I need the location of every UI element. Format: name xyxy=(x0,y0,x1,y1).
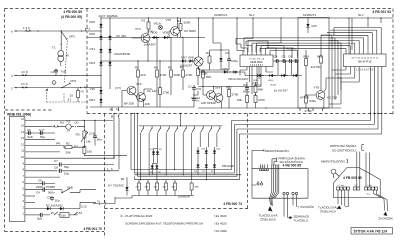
dashed divider mid horizontal xyxy=(87,113,393,115)
svg-text:N1: N1 xyxy=(67,120,71,124)
svg-text:500: 500 xyxy=(62,214,67,217)
box 500 xyxy=(60,212,69,217)
svg-text:560n: 560n xyxy=(48,191,55,195)
svg-text:2700: 2700 xyxy=(232,93,239,97)
zvoncek arrow xyxy=(383,212,387,217)
svg-text:MIKROTELEFÓN: MIKROTELEFÓN xyxy=(321,159,345,164)
stitok box xyxy=(351,228,393,235)
matrix bottom buses xyxy=(135,176,240,179)
diode VD13 xyxy=(281,74,287,77)
row wire 7 xyxy=(25,176,60,178)
svg-text:VD0: VD0 xyxy=(152,31,158,35)
svg-text:V30: V30 xyxy=(90,87,96,91)
matrix diodes group2 row2 xyxy=(196,163,199,169)
IC1 MHB 9600 xyxy=(240,55,273,67)
svg-text:100µ: 100µ xyxy=(231,59,238,63)
svg-text:ŠTÍTOK 4 FA 745 124: ŠTÍTOK 4 FA 745 124 xyxy=(354,228,388,233)
diode row wire xyxy=(245,75,302,77)
wire b line xyxy=(14,30,87,32)
svg-text:KC 508C: KC 508C xyxy=(184,29,197,33)
svg-text:ƒ ZVONČÍK: ƒ ZVONČÍK xyxy=(298,204,314,209)
row wire 15 xyxy=(25,126,52,128)
transistor VT6 xyxy=(207,91,216,100)
svg-text:C7: C7 xyxy=(54,159,58,163)
rail ticks at dashed xyxy=(300,108,323,111)
svg-text:10µ: 10µ xyxy=(55,199,60,203)
svg-text:VZ5: VZ5 xyxy=(311,24,317,28)
svg-text:C6: C6 xyxy=(288,55,292,59)
IC2 top pin stubs xyxy=(346,28,381,55)
svg-text:VD10 2xKA267: VD10 2xKA267 xyxy=(228,77,249,81)
key buttons row xyxy=(141,126,144,135)
row wire 1 xyxy=(25,214,40,216)
svg-text:5µ8: 5µ8 xyxy=(37,217,42,221)
svg-text:18 17 16 15 14 13 12 11 10: 18 17 16 15 14 13 12 11 10 xyxy=(351,57,378,59)
resistor 470K xyxy=(254,94,257,104)
svg-text:68R: 68R xyxy=(195,187,199,189)
svg-text:(4 FB 000 95): (4 FB 000 95) xyxy=(61,15,82,19)
svg-text:N0: N0 xyxy=(60,121,64,125)
svg-text:B2 2xKA262: B2 2xKA262 xyxy=(46,203,63,207)
outer dashed border left xyxy=(4,9,6,232)
outer dashed border right xyxy=(392,9,394,116)
svg-text:ČÍSELNICA: ČÍSELNICA xyxy=(320,209,336,214)
wire y72 left xyxy=(199,72,245,76)
matrix mid bus xyxy=(131,170,234,174)
row wire 5 xyxy=(25,189,42,191)
svg-text:Z3: Z3 xyxy=(79,211,83,215)
svg-text:2x270K: 2x270K xyxy=(311,65,321,69)
svg-text:300K: 300K xyxy=(174,73,181,77)
zener VZ5 xyxy=(306,23,309,29)
capacitor C6 xyxy=(288,59,293,63)
svg-text:KF422: KF422 xyxy=(191,96,200,100)
loop wire L3 xyxy=(237,129,378,176)
matrix diodes group1 xyxy=(152,150,155,156)
svg-text:PRÍPOJNÁ ŠNÚRA: PRÍPOJNÁ ŠNÚRA xyxy=(330,143,356,148)
IC1 top pin stubs xyxy=(243,43,270,55)
svg-text:3xKZ185/40: 3xKZ185/40 xyxy=(114,52,131,56)
svg-text:VD5: VD5 xyxy=(89,20,95,24)
svg-text:7n5: 7n5 xyxy=(196,87,201,91)
svg-text:C4: C4 xyxy=(36,191,40,195)
cap-diode verticals xyxy=(278,61,298,76)
svg-text:R5: R5 xyxy=(168,66,172,70)
svg-text:NLJ: NLJ xyxy=(358,13,364,17)
gap bundle verticals xyxy=(332,35,341,108)
svg-text:KZ360/V1: KZ360/V1 xyxy=(214,13,228,17)
svg-text:R2: R2 xyxy=(66,142,70,146)
svg-text:VT2: VT2 xyxy=(136,82,142,86)
svg-text:20K: 20K xyxy=(66,151,71,155)
svg-text:VT3: VT3 xyxy=(135,27,141,31)
terminal strip box xyxy=(9,117,25,222)
wire y86.5 xyxy=(198,86,261,88)
linkage Z1 dashed xyxy=(47,90,89,103)
svg-text:1 6 5: 1 6 5 xyxy=(23,26,30,30)
svg-text:22K: 22K xyxy=(141,73,146,77)
IC2 routing loops xyxy=(260,48,346,52)
svg-text:B1: B1 xyxy=(121,177,125,181)
svg-text:C4: C4 xyxy=(274,55,278,59)
svg-text:/ Ds 3020: / Ds 3020 xyxy=(214,229,227,233)
connector small left xyxy=(257,183,259,185)
matrix diodes group1 row2 xyxy=(151,164,154,170)
wire b into board xyxy=(88,30,101,32)
svg-text:50µ: 50µ xyxy=(64,165,69,169)
svg-text:15: 15 xyxy=(21,124,24,128)
svg-text:VD3: VD3 xyxy=(89,61,95,65)
linkage VP3-PP2 dashed xyxy=(65,41,68,83)
IC1 bottom drops xyxy=(240,67,273,95)
top bus wire xyxy=(101,17,393,19)
svg-text:BF 258: BF 258 xyxy=(124,102,134,106)
vertical feeds x115 x118 xyxy=(114,114,119,170)
svg-text:ZVONČEK: ZVONČEK xyxy=(379,216,394,221)
resistor Rd xyxy=(165,182,168,192)
svg-text:2350 + PF868: 2350 + PF868 xyxy=(36,185,55,189)
block bottom rail xyxy=(132,192,194,196)
dashed WNB block top xyxy=(5,109,52,111)
wire row y38 xyxy=(87,37,205,39)
svg-text:z ? m b: z ? m b xyxy=(259,167,265,169)
svg-text:10µ: 10µ xyxy=(64,172,69,176)
row wire 11 xyxy=(25,151,60,153)
svg-text:VP3: VP3 xyxy=(69,35,75,39)
loop wire L2 xyxy=(234,125,374,174)
svg-text:13k: 13k xyxy=(86,140,91,144)
resistor R10 120K xyxy=(197,67,200,77)
svg-text:C5: C5 xyxy=(282,55,286,59)
svg-text:K33k: K33k xyxy=(309,99,316,103)
key column drops xyxy=(141,135,217,180)
diode VD10 xyxy=(232,70,238,73)
diode column 2 wire xyxy=(109,18,111,89)
phone hook xyxy=(331,169,336,174)
phone cable wires down-left xyxy=(338,190,348,207)
svg-text:/ Es 4020: / Es 4020 xyxy=(214,222,227,226)
svg-text:1xKA267: 1xKA267 xyxy=(144,43,157,47)
svg-text:R3: R3 xyxy=(76,133,80,137)
svg-text:4 FB 000 85: 4 FB 000 85 xyxy=(63,10,82,14)
svg-text:M54A267: M54A267 xyxy=(222,164,235,168)
svg-text:R4: R4 xyxy=(154,66,158,70)
row wire 12 xyxy=(25,145,64,147)
svg-text:Y0: Y0 xyxy=(80,90,84,94)
IC1 routing loops xyxy=(237,18,243,51)
junction dots bus xyxy=(100,17,101,18)
resistor Ra xyxy=(138,182,141,192)
capacitor C5 xyxy=(281,59,286,63)
svg-text:C5: C5 xyxy=(38,178,42,182)
dashed keypad block right border xyxy=(246,114,248,209)
svg-text:1k5: 1k5 xyxy=(87,150,92,154)
svg-text:4 FB 001 70: 4 FB 001 70 xyxy=(83,227,102,231)
svg-text:KY 730/300: KY 730/300 xyxy=(108,184,124,188)
svg-text:2 b 6: 2 b 6 xyxy=(21,82,28,86)
connection block box xyxy=(252,150,308,198)
svg-text:MIKROTELEFÓN: MIKROTELEFÓN xyxy=(265,148,289,153)
svg-text:25: 25 xyxy=(51,211,55,215)
svg-text:R2: R2 xyxy=(135,66,139,70)
dashed divider vertical top-left block xyxy=(86,9,88,114)
svg-text:T1: T1 xyxy=(52,46,56,50)
svg-text:560K: 560K xyxy=(184,21,191,25)
row wire 4 xyxy=(25,195,35,197)
resistor 50K xyxy=(202,70,205,80)
svg-text:VB10: VB10 xyxy=(268,80,274,82)
resistor Re xyxy=(174,182,177,192)
resistor Rf right xyxy=(190,182,193,192)
svg-text:ČÍSELNICA: ČÍSELNICA xyxy=(260,217,276,222)
wire row y61 xyxy=(101,60,180,62)
svg-text:VD1A: VD1A xyxy=(270,84,276,87)
row wire 9 xyxy=(25,164,57,166)
svg-text:(w): (w) xyxy=(56,141,60,145)
svg-text:C10: C10 xyxy=(81,205,87,209)
relay contact PP2 xyxy=(62,83,71,88)
capacitor C2b 1n xyxy=(192,97,196,102)
svg-text:Z1: Z1 xyxy=(68,98,72,102)
svg-text:1 2 3 4 5 6 7: 1 2 3 4 5 6 7 xyxy=(250,64,264,67)
svg-text:R1: R1 xyxy=(142,19,146,23)
wire row2 into board xyxy=(87,87,101,89)
loop wire L4 xyxy=(240,134,382,180)
svg-text:C3: C3 xyxy=(225,51,229,55)
svg-text:C3: C3 xyxy=(243,83,247,87)
svg-text:SCHÉMA ZAPOJENIA AUT. TELEFÓNN: SCHÉMA ZAPOJENIA AUT. TELEFÓNNEHO PRÍSTR… xyxy=(125,221,203,226)
svg-text:1 2 3 4 5 6 7 8 9: 1 2 3 4 5 6 7 8 9 xyxy=(356,69,374,72)
contact row15 xyxy=(53,125,60,127)
svg-text:R9: R9 xyxy=(180,66,184,70)
svg-text:50K: 50K xyxy=(206,75,211,79)
svg-text:KZ360/T1: KZ360/T1 xyxy=(303,13,317,17)
svg-text:(VT): (VT) xyxy=(115,86,121,90)
svg-text:470K: 470K xyxy=(258,98,265,102)
svg-text:z ? mb: z ? mb xyxy=(366,185,373,187)
svg-text:WNB 061 (06B): WNB 061 (06B) xyxy=(7,113,31,117)
svg-text:4 FB 001 93: 4 FB 001 93 xyxy=(372,10,391,14)
wire pins left xyxy=(332,70,359,82)
svg-text:10K: 10K xyxy=(145,102,150,106)
bracket pripojna xyxy=(272,158,278,165)
connector pair zem xyxy=(283,192,285,194)
svg-text:50µ: 50µ xyxy=(40,135,45,139)
dashed divider vertical center xyxy=(104,114,106,239)
matrix diodes group2 xyxy=(196,149,199,155)
svg-text:C1: C1 xyxy=(188,85,192,89)
terminal numbers 16-1 xyxy=(21,117,25,216)
contact at dashed row2 xyxy=(85,86,88,88)
IC2 MHB 4T18 xyxy=(344,54,387,67)
wire row4 into board xyxy=(87,74,101,76)
zener VZ4 xyxy=(219,57,222,63)
svg-text:NLJ: NLJ xyxy=(249,13,255,17)
svg-text:VAB: VAB xyxy=(67,186,73,190)
dial symbol N xyxy=(194,57,203,66)
outer dashed border bottom-left xyxy=(5,231,105,233)
bottom rail of top block xyxy=(90,106,194,108)
capacitor C7 xyxy=(294,59,299,63)
svg-text:KF 422: KF 422 xyxy=(147,89,157,93)
svg-text:C6: C6 xyxy=(27,128,31,132)
svg-text:MH-B 4T18: MH-B 4T18 xyxy=(358,60,372,64)
svg-text:KR4: KR4 xyxy=(89,98,95,102)
svg-text:VD6: VD6 xyxy=(89,32,95,36)
connector pair zvoncik xyxy=(292,192,294,194)
svg-text:83k: 83k xyxy=(237,98,242,102)
diode VD12 xyxy=(269,74,275,77)
arrow mikrotelefon xyxy=(252,150,265,152)
svg-text:VZ1: VZ1 xyxy=(89,47,95,51)
svg-text:6x KA 267: 6x KA 267 xyxy=(274,89,288,93)
KZ360/T1 box xyxy=(298,18,329,109)
svg-text:4 FB 000 85: 4 FB 000 85 xyxy=(283,164,302,168)
resistor R8 2700 xyxy=(159,86,162,96)
svg-text:VT8: VT8 xyxy=(314,86,320,90)
svg-text:10: 10 xyxy=(21,155,24,159)
svg-text:4 FB 000 73: 4 FB 000 73 xyxy=(223,202,242,206)
svg-text:R6: R6 xyxy=(142,98,146,102)
svg-text:KF 420: KF 420 xyxy=(116,34,126,38)
IC2 bottom wires down xyxy=(346,67,382,135)
svg-text:68K: 68K xyxy=(258,88,263,92)
svg-text:C18: C18 xyxy=(89,132,95,136)
cable bundle in block xyxy=(272,165,279,193)
switch VP3 xyxy=(61,31,68,39)
svg-text:5x5600R: 5x5600R xyxy=(178,195,191,199)
phone feed wires xyxy=(357,145,370,187)
row wire 3 xyxy=(25,201,35,203)
svg-text:C8: C8 xyxy=(54,166,58,170)
svg-text:10K 6F308: 10K 6F308 xyxy=(201,101,216,105)
svg-text:4 b 8: 4 b 8 xyxy=(21,70,28,74)
svg-text:VD6: VD6 xyxy=(163,31,169,35)
outer dashed border top xyxy=(5,8,394,10)
svg-text:470K: 470K xyxy=(186,73,193,77)
diode VD11 xyxy=(257,74,263,77)
matrix mid bus2 xyxy=(134,174,241,176)
diode VD14 xyxy=(293,74,299,77)
contact pair on b wire xyxy=(25,30,32,32)
contact pair on 4 wire xyxy=(21,74,28,76)
bottom rail vt cluster xyxy=(198,107,341,109)
row wire 8 xyxy=(25,170,57,172)
diode VD2a xyxy=(108,35,111,41)
svg-text:560p: 560p xyxy=(243,90,250,94)
contact 25 xyxy=(44,212,60,215)
loop wire L1 xyxy=(232,121,371,170)
wire T1 xyxy=(60,31,62,66)
circled 1 note xyxy=(52,81,56,85)
svg-text:13: 13 xyxy=(21,136,24,140)
zvoncek wires xyxy=(374,190,388,211)
svg-text:60n: 60n xyxy=(97,138,102,142)
svg-text:① - PLATÍ PRE Es 4020: ① - PLATÍ PRE Es 4020 xyxy=(120,214,153,218)
diode column 1 wire xyxy=(100,18,102,107)
row wire 16 xyxy=(25,119,113,121)
resistor Rc xyxy=(156,182,159,192)
row wire 13 xyxy=(25,138,55,140)
svg-text:/ Es 3020: / Es 3020 xyxy=(214,214,227,218)
junction J at dashed xyxy=(86,29,89,32)
svg-text:(X): (X) xyxy=(75,121,79,125)
svg-text:SO ZÁSTRČKOU: SO ZÁSTRČKOU xyxy=(332,148,356,153)
junction dots at dashed crossing xyxy=(370,113,371,114)
svg-text:z 7 mb: z 7 mb xyxy=(338,185,345,187)
cable to ciselnica xyxy=(270,191,279,198)
svg-text:R7: R7 xyxy=(74,145,78,149)
row wire 10 xyxy=(25,157,114,159)
svg-text:16: 16 xyxy=(21,117,24,121)
contact pair on 2 wire xyxy=(21,86,28,88)
svg-text:4xKY 400/80A: 4xKY 400/80A xyxy=(99,14,118,18)
wires NLJ drops xyxy=(349,18,381,54)
arrow down xyxy=(268,206,273,212)
svg-text:PP2: PP2 xyxy=(71,79,77,83)
svg-text:4700: 4700 xyxy=(160,73,167,77)
row wire 14 xyxy=(25,132,55,134)
resistor 83k xyxy=(246,94,249,104)
wire VT8 collector xyxy=(324,78,341,104)
diode VD2c xyxy=(108,61,111,67)
dashed divider bottom-center horizontal xyxy=(105,208,251,210)
capacitor row wire xyxy=(273,60,299,62)
bus junction dots xyxy=(236,17,237,18)
svg-text:TLAČIDLO: TLAČIDLO xyxy=(294,218,309,223)
svg-text:V91A: V91A xyxy=(154,22,161,26)
svg-text:14: 14 xyxy=(21,130,24,134)
keypad feed wires xyxy=(131,114,181,177)
diode VD2b xyxy=(108,48,111,54)
svg-text:VT6: VT6 xyxy=(166,18,172,22)
phone body xyxy=(334,168,381,198)
svg-text:4 FB 000 95: 4 FB 000 95 xyxy=(343,176,362,180)
svg-text:2700: 2700 xyxy=(163,91,170,95)
svg-text:12: 12 xyxy=(21,142,24,146)
capacitor C4 xyxy=(275,59,280,63)
cluster rails xyxy=(199,50,230,70)
resistor Rb xyxy=(147,182,150,192)
svg-text:9n8: 9n8 xyxy=(28,135,33,139)
svg-text:VT7: VT7 xyxy=(215,86,221,90)
keypad top bus xyxy=(139,125,223,127)
